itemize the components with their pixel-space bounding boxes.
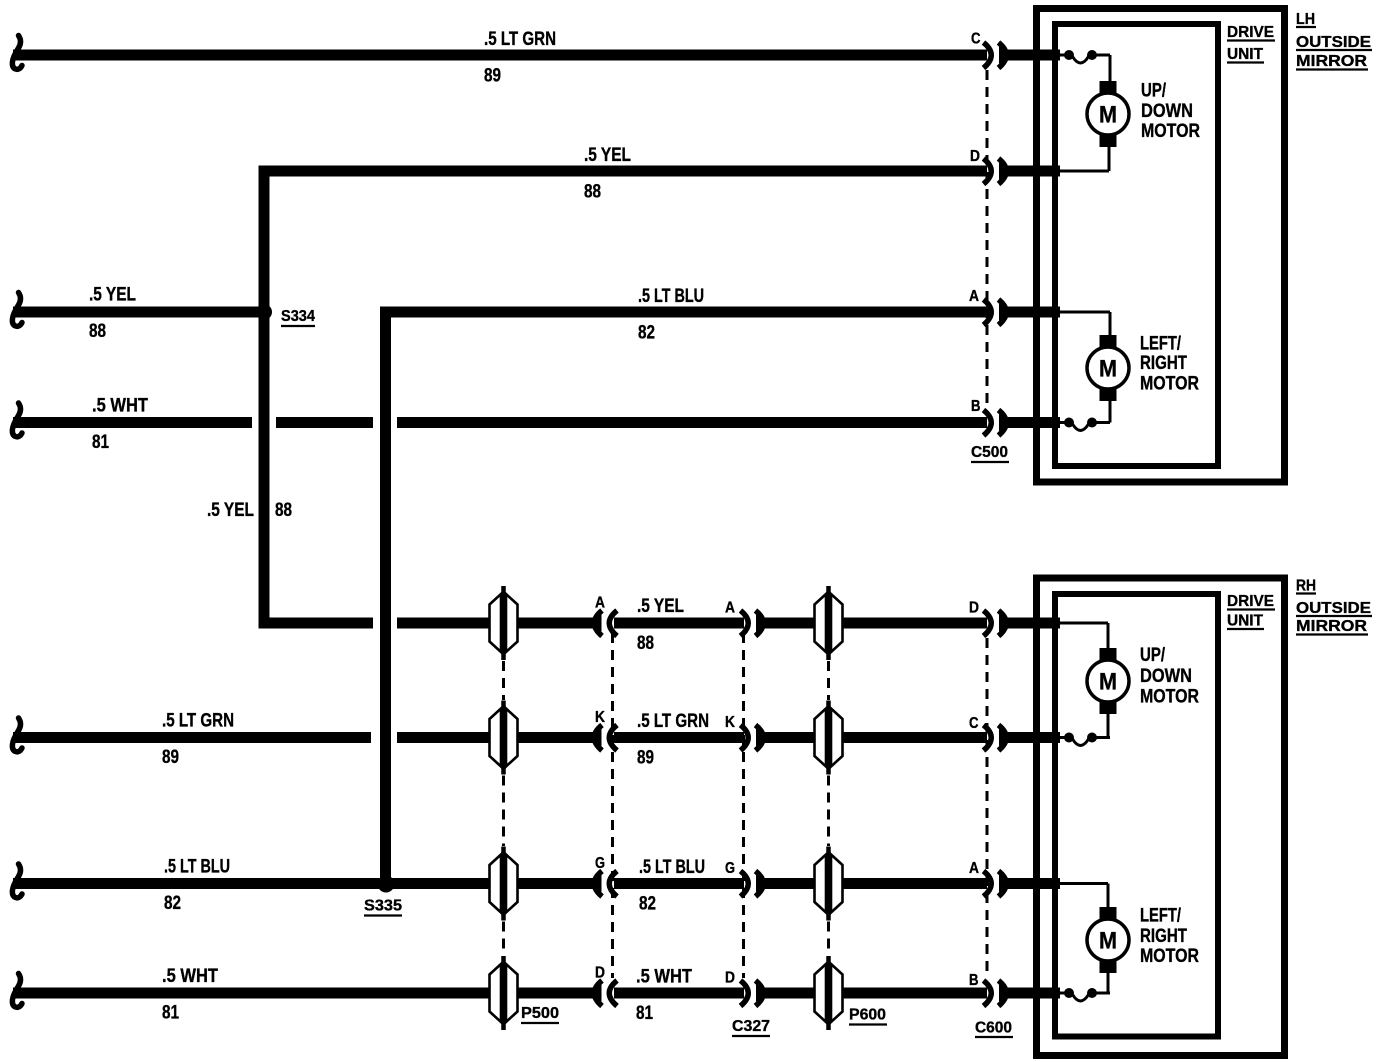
svg-text:K: K	[595, 709, 605, 726]
svg-text:82: 82	[638, 323, 655, 344]
svg-text:C: C	[969, 715, 979, 732]
svg-text:C600: C600	[975, 1020, 1012, 1037]
svg-text:B: B	[969, 972, 979, 989]
svg-text:P500: P500	[521, 1005, 559, 1022]
svg-text:UP/: UP/	[1140, 645, 1166, 666]
svg-text:LH: LH	[1296, 11, 1315, 28]
svg-text:A: A	[725, 600, 735, 617]
svg-text:DRIVE: DRIVE	[1227, 593, 1274, 610]
svg-text:MOTOR: MOTOR	[1140, 687, 1199, 708]
svg-text:C: C	[971, 31, 981, 48]
svg-text:K: K	[725, 714, 735, 731]
svg-text:.5 YEL: .5 YEL	[89, 285, 136, 306]
svg-text:DOWN: DOWN	[1140, 666, 1192, 687]
svg-text:.5 LT GRN: .5 LT GRN	[637, 711, 709, 732]
svg-text:C327: C327	[732, 1018, 770, 1035]
svg-text:.5 YEL: .5 YEL	[584, 145, 631, 166]
svg-text:89: 89	[162, 747, 179, 768]
svg-text:LEFT/: LEFT/	[1140, 334, 1182, 355]
svg-text:MOTOR: MOTOR	[1140, 374, 1199, 395]
svg-text:.5 LT BLU: .5 LT BLU	[164, 857, 230, 878]
svg-text:D: D	[970, 148, 980, 165]
svg-text:D: D	[969, 600, 979, 617]
svg-text:MOTOR: MOTOR	[1141, 121, 1200, 142]
svg-text:88: 88	[584, 182, 601, 203]
svg-text:MIRROR: MIRROR	[1296, 53, 1367, 70]
svg-text:D: D	[725, 970, 735, 987]
svg-text:D: D	[595, 965, 605, 982]
svg-text:UP/: UP/	[1141, 81, 1167, 102]
svg-text:UNIT: UNIT	[1227, 613, 1263, 630]
svg-text:88: 88	[637, 633, 654, 654]
svg-text:88: 88	[275, 500, 292, 521]
svg-text:.5 WHT: .5 WHT	[162, 966, 218, 987]
svg-text:.5 LT BLU: .5 LT BLU	[638, 286, 704, 307]
svg-text:.5 YEL: .5 YEL	[637, 596, 684, 617]
svg-text:LEFT/: LEFT/	[1140, 906, 1182, 927]
svg-text:81: 81	[92, 432, 109, 453]
svg-text:G: G	[725, 860, 735, 877]
svg-text:OUTSIDE: OUTSIDE	[1296, 600, 1371, 617]
svg-text:DOWN: DOWN	[1141, 101, 1193, 122]
svg-text:RIGHT: RIGHT	[1140, 353, 1187, 374]
svg-text:S334: S334	[281, 308, 315, 325]
svg-text:81: 81	[162, 1003, 179, 1024]
svg-text:.5 YEL: .5 YEL	[207, 500, 254, 521]
svg-text:A: A	[595, 595, 605, 612]
svg-text:RH: RH	[1296, 578, 1316, 595]
svg-text:88: 88	[89, 321, 106, 342]
svg-text:C500: C500	[971, 444, 1008, 461]
svg-text:RIGHT: RIGHT	[1140, 926, 1187, 947]
svg-text:81: 81	[636, 1003, 653, 1024]
svg-text:89: 89	[637, 748, 654, 769]
svg-text:82: 82	[639, 894, 656, 915]
svg-text:MOTOR: MOTOR	[1140, 946, 1199, 967]
svg-text:UNIT: UNIT	[1227, 46, 1263, 63]
svg-text:.5 LT GRN: .5 LT GRN	[484, 29, 556, 50]
svg-text:82: 82	[164, 893, 181, 914]
svg-text:.5 WHT: .5 WHT	[92, 396, 148, 417]
svg-text:S335: S335	[364, 898, 402, 915]
svg-text:DRIVE: DRIVE	[1227, 24, 1274, 41]
svg-text:.5 LT GRN: .5 LT GRN	[162, 711, 234, 732]
svg-text:89: 89	[484, 66, 501, 87]
svg-text:B: B	[971, 398, 981, 415]
svg-text:.5 WHT: .5 WHT	[636, 967, 692, 988]
svg-text:OUTSIDE: OUTSIDE	[1296, 34, 1371, 51]
svg-text:.5 LT BLU: .5 LT BLU	[639, 857, 705, 878]
svg-text:A: A	[969, 860, 979, 877]
svg-text:P600: P600	[849, 1007, 886, 1024]
svg-text:G: G	[595, 855, 605, 872]
svg-text:A: A	[969, 288, 979, 305]
svg-text:MIRROR: MIRROR	[1296, 618, 1367, 635]
